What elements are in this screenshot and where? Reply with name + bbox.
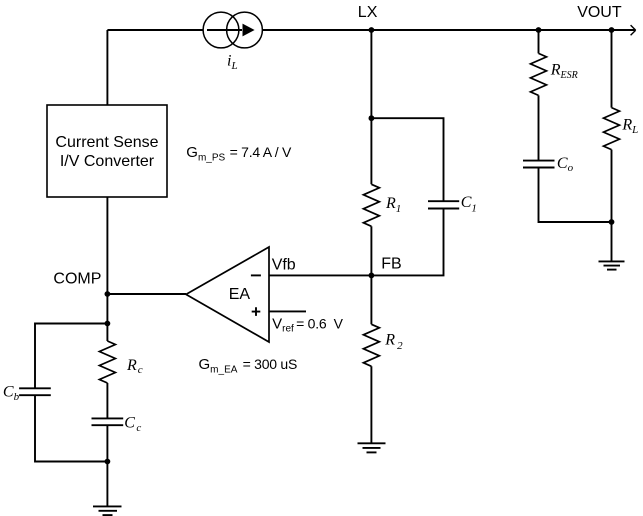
ground (bottom left)	[93, 506, 122, 515]
wire Cc to bottom junction	[106, 425, 108, 461]
wire RL branch upper	[611, 30, 613, 108]
svg-text:COMP: COMP	[53, 270, 101, 287]
node Cb top junction dot	[105, 321, 111, 327]
wire bottom junction to ground	[106, 462, 108, 507]
wire C1 branch bottom	[371, 209, 443, 276]
wire R1 to FB	[370, 226, 372, 275]
node COMP junction dot	[105, 291, 111, 297]
svg-text:Cc: Cc	[124, 415, 141, 434]
capacitor C1	[428, 201, 459, 208]
node bottom-left junction dot	[105, 459, 111, 465]
node VOUT junction dot	[609, 27, 615, 33]
svg-text:Rc: Rc	[126, 357, 143, 376]
node Co-RL junction dot	[609, 219, 615, 225]
wire C1 branch top	[371, 118, 443, 201]
capacitor Cb	[19, 388, 51, 395]
wire Rc to Cc	[106, 383, 108, 418]
ground (below RL)	[599, 261, 625, 269]
svg-text:RL: RL	[621, 117, 638, 136]
svg-text:R2: R2	[384, 332, 403, 352]
resistor R1	[363, 184, 379, 226]
svg-text:Vref= 0.6 V: Vref= 0.6 V	[272, 315, 344, 334]
op-amp EA triangle	[186, 247, 269, 342]
wire top-left horizontal	[107, 29, 203, 31]
capacitor Cc	[92, 418, 124, 425]
resistor RESR	[531, 53, 547, 95]
current source iL	[203, 12, 262, 48]
wire EA plus input	[269, 310, 306, 312]
svg-text:C1: C1	[461, 194, 477, 215]
wire RESR to Co	[538, 95, 540, 160]
svg-text:Cb: Cb	[3, 383, 20, 403]
wire RL to ground	[611, 150, 613, 262]
wire Co to bottom junction	[539, 168, 612, 223]
wire FB to R2	[370, 275, 372, 324]
wire EA output to COMP	[107, 293, 186, 295]
svg-text:FB: FB	[381, 255, 401, 272]
node LX junction dot	[369, 27, 375, 33]
wire VOUT output arrow	[631, 25, 636, 35]
svg-text:LX: LX	[358, 4, 378, 21]
resistor RL	[604, 108, 620, 150]
op-amp plus input sign	[252, 307, 261, 316]
node C1-branch junction dot	[369, 115, 375, 121]
wire LX vertical	[370, 30, 372, 184]
resistor Rc	[99, 341, 115, 383]
svg-text:Gm_EA= 300 uS: Gm_EA= 300 uS	[199, 356, 298, 376]
svg-text:Gm_PS= 7.4 A / V: Gm_PS= 7.4 A / V	[186, 144, 292, 164]
svg-text:Co: Co	[557, 155, 574, 174]
wire RESR branch upper	[538, 30, 540, 53]
ground (below R2)	[358, 443, 386, 452]
svg-text:iL: iL	[227, 53, 238, 73]
wire R2 to ground	[370, 366, 372, 443]
svg-text:Vfb: Vfb	[272, 257, 296, 274]
svg-text:Current Sense: Current Sense	[55, 134, 158, 151]
capacitor Co	[523, 161, 555, 168]
wire Cb bottom to junction	[35, 395, 107, 461]
wire top main horizontal	[262, 29, 635, 31]
svg-text:EA: EA	[229, 286, 251, 303]
svg-text:RESR: RESR	[550, 62, 578, 81]
svg-text:R1: R1	[385, 195, 401, 215]
wire box to COMP vertical	[106, 197, 108, 341]
wire Cb branch left	[35, 324, 107, 389]
svg-text:I/V Converter: I/V Converter	[60, 153, 155, 170]
node RESR top junction dot	[536, 27, 542, 33]
svg-text:VOUT: VOUT	[577, 4, 622, 21]
wire left vertical into box	[106, 30, 108, 105]
wire Vfb to FB	[269, 274, 371, 276]
block Current Sense I/V Converter	[47, 105, 167, 197]
resistor R2	[363, 324, 379, 366]
op-amp minus input sign	[251, 274, 261, 276]
node FB junction dot	[369, 273, 375, 279]
